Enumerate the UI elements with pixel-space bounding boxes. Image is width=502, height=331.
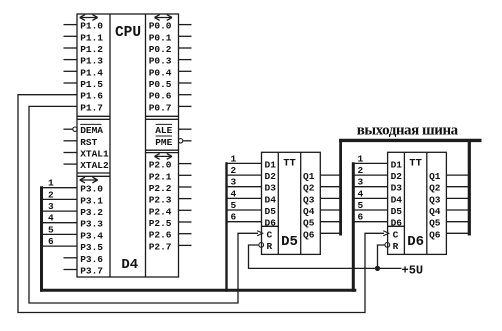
svg-text:3: 3: [231, 177, 237, 188]
svg-text:R: R: [267, 241, 273, 252]
wire P3.5 to bus, numbered 6: [40, 236, 77, 247]
svg-text:P1.4: P1.4: [80, 67, 103, 78]
svg-text:RST: RST: [80, 137, 97, 148]
svg-text:P2.3: P2.3: [149, 195, 172, 206]
svg-text:D5: D5: [281, 234, 298, 250]
pin P0.6: [149, 91, 192, 102]
D5 input D4 with numbered wire 4: [227, 188, 277, 205]
svg-text:P3.5: P3.5: [80, 242, 103, 253]
svg-text:D2: D2: [391, 171, 403, 182]
svg-text:3: 3: [48, 201, 54, 212]
pin PME (inverted): [155, 136, 191, 148]
wire P3.4 to bus, numbered 5: [40, 224, 77, 235]
svg-text:D4: D4: [121, 257, 138, 273]
svg-text:XTAL2: XTAL2: [80, 160, 109, 171]
D4 reference designator: [121, 257, 138, 273]
bottom bus (thick horizontal): [40, 289, 356, 292]
svg-text:P2.0: P2.0: [149, 160, 172, 171]
svg-text:+5U: +5U: [402, 263, 424, 277]
svg-text:4: 4: [231, 188, 237, 199]
pin P0.0: [149, 21, 192, 32]
svg-text:Q6: Q6: [303, 229, 315, 240]
svg-text:C: C: [267, 229, 273, 240]
svg-text:CPU: CPU: [115, 25, 141, 41]
D6 output Q1: [429, 171, 470, 182]
svg-text:4: 4: [358, 188, 364, 199]
D5 output Q3: [303, 194, 341, 205]
D6 reset input R (inverted): [385, 241, 399, 252]
svg-text:P1.6: P1.6: [80, 91, 103, 102]
svg-text:2: 2: [358, 165, 364, 176]
svg-text:P3.3: P3.3: [80, 219, 103, 230]
pin P2.2: [149, 183, 192, 194]
D6 input bus bar (thick vertical): [352, 162, 355, 291]
pin P1.1: [64, 32, 104, 43]
pin P3.2: [80, 207, 103, 218]
svg-text:D3: D3: [265, 183, 277, 194]
svg-text:6: 6: [231, 212, 237, 223]
svg-text:P1.7: P1.7: [80, 102, 103, 113]
svg-text:P0.4: P0.4: [149, 67, 172, 78]
svg-text:D5: D5: [265, 206, 277, 217]
svg-text:5: 5: [358, 200, 364, 211]
svg-text:Q2: Q2: [303, 183, 315, 194]
svg-text:P2.6: P2.6: [149, 230, 172, 241]
pin P1.7: [80, 102, 103, 113]
D6 input D4 with numbered wire 4: [353, 188, 402, 205]
pin P2.6: [149, 230, 192, 241]
pin P2.4: [149, 206, 192, 217]
pin P1.0: [64, 21, 104, 32]
pin P3.3: [80, 219, 103, 230]
svg-text:5: 5: [48, 224, 54, 235]
svg-text:P0.1: P0.1: [149, 32, 172, 43]
svg-text:XTAL1: XTAL1: [80, 149, 109, 160]
svg-text:P1.0: P1.0: [80, 21, 103, 32]
pin P2.0: [149, 160, 192, 171]
D5 output Q2: [303, 183, 341, 194]
svg-text:P1.1: P1.1: [80, 32, 103, 43]
D6 Q bus bar (thick vertical): [468, 140, 471, 235]
svg-text:P3.7: P3.7: [80, 266, 103, 277]
port P1 bidirectional arrow: [80, 15, 98, 21]
D6 input D1 with numbered wire 1: [353, 153, 402, 170]
port P0 bidirectional arrow: [155, 15, 173, 21]
wire P3.2 to bus, numbered 3: [40, 201, 77, 212]
D6 output Q5: [429, 218, 470, 229]
pin P0.5: [149, 79, 192, 90]
D5 TT label: [283, 158, 296, 170]
wire P3.0 to bus, numbered 1: [40, 178, 77, 189]
svg-text:P3.4: P3.4: [80, 230, 103, 241]
svg-text:ALE: ALE: [155, 125, 172, 136]
CPU microcontroller D4 body: [77, 14, 179, 277]
D6 clock input C (dynamic): [383, 229, 398, 240]
D6 output Q3: [429, 194, 470, 205]
D5 reference designator: [281, 234, 298, 250]
pin P3.7: [64, 266, 104, 277]
svg-text:Q2: Q2: [429, 183, 441, 194]
pin P2.3: [149, 195, 192, 206]
latch D5 body: [262, 152, 321, 254]
svg-text:P3.0: P3.0: [80, 184, 103, 195]
svg-text:Q5: Q5: [303, 218, 315, 229]
pin P0.7: [149, 102, 192, 113]
svg-text:P2.5: P2.5: [149, 218, 172, 229]
port P3 bidirectional arrow: [80, 177, 98, 183]
pin P0.1: [149, 32, 192, 43]
svg-text:6: 6: [48, 236, 54, 247]
D6 output Q2: [429, 183, 470, 194]
svg-text:DEMA: DEMA: [80, 125, 103, 136]
pin P2.1: [149, 171, 192, 182]
svg-text:TT: TT: [409, 158, 422, 170]
svg-text:D6: D6: [407, 234, 424, 250]
svg-text:Q4: Q4: [429, 206, 441, 217]
pin P1.6: [80, 91, 103, 102]
svg-text:Q3: Q3: [303, 194, 315, 205]
svg-text:Q6: Q6: [429, 229, 441, 240]
pin P1.3: [64, 56, 104, 67]
svg-text:4: 4: [48, 213, 54, 224]
pin P3.6: [64, 254, 104, 265]
wire P1.6 to D6 clock C: [18, 95, 384, 313]
pin XTAL2: [64, 160, 110, 171]
pin P3.0: [80, 184, 103, 195]
svg-text:D3: D3: [391, 183, 403, 194]
pin P1.4: [64, 67, 104, 78]
D6 output Q6: [429, 229, 470, 240]
svg-text:P2.2: P2.2: [149, 183, 172, 194]
svg-text:P3.1: P3.1: [80, 195, 103, 206]
svg-text:D2: D2: [265, 171, 277, 182]
D5 input D1 with numbered wire 1: [227, 153, 277, 170]
D6 input D5 with numbered wire 5: [353, 200, 402, 217]
svg-text:R: R: [393, 241, 399, 252]
D6 input D2 with numbered wire 2: [353, 165, 402, 182]
svg-text:1: 1: [358, 153, 364, 164]
svg-text:P3.2: P3.2: [80, 207, 103, 218]
svg-text:Q1: Q1: [429, 171, 441, 182]
output bus (thick horizontal): [339, 139, 482, 142]
svg-text:P2.1: P2.1: [149, 171, 172, 182]
svg-text:P1.2: P1.2: [80, 44, 103, 55]
svg-text:P0.2: P0.2: [149, 44, 172, 55]
pin XTAL1: [64, 149, 110, 160]
pin P0.3: [149, 56, 192, 67]
D5 input D6 with numbered wire 6: [227, 212, 277, 229]
svg-text:3: 3: [358, 177, 364, 188]
D6 output Q4: [429, 206, 470, 217]
svg-text:Q4: Q4: [303, 206, 315, 217]
svg-text:P1.3: P1.3: [80, 56, 103, 67]
svg-text:2: 2: [48, 189, 54, 200]
D5 output Q5: [303, 218, 341, 229]
bus bar from P3 port (thick vertical): [40, 186, 43, 292]
svg-text:Q1: Q1: [303, 171, 315, 182]
svg-text:PME: PME: [155, 137, 172, 148]
svg-text:P0.0: P0.0: [149, 21, 172, 32]
pin P2.7: [149, 241, 192, 252]
svg-text:TT: TT: [283, 158, 296, 170]
pin P3.1: [80, 195, 103, 206]
svg-text:5: 5: [231, 200, 237, 211]
wire D6 R to +5V: [378, 245, 385, 268]
D5 input D5 with numbered wire 5: [227, 200, 277, 217]
svg-text:выходная шина: выходная шина: [357, 122, 459, 138]
wire P3.3 to bus, numbered 4: [40, 213, 77, 224]
pin RST: [64, 137, 98, 148]
D6 input D3 with numbered wire 3: [353, 177, 402, 194]
D5 Q bus bar (thick vertical): [339, 140, 342, 235]
svg-text:P0.7: P0.7: [149, 102, 172, 113]
svg-text:D4: D4: [391, 194, 403, 205]
wire P3.1 to bus, numbered 2: [40, 189, 77, 200]
D5 input D3 with numbered wire 3: [227, 177, 277, 194]
svg-text:6: 6: [358, 212, 364, 223]
pin P3.5: [80, 242, 103, 253]
wire D5 R to +5V: [249, 245, 402, 268]
svg-text:D4: D4: [265, 194, 277, 205]
CPU label: [115, 25, 141, 41]
svg-text:D1: D1: [265, 159, 277, 170]
wire P1.7 to D5 clock C: [29, 106, 258, 303]
svg-text:P0.3: P0.3: [149, 56, 172, 67]
pin P0.4: [149, 67, 192, 78]
svg-text:P2.4: P2.4: [149, 206, 172, 217]
svg-text:P2.7: P2.7: [149, 241, 172, 252]
svg-text:P0.6: P0.6: [149, 91, 172, 102]
pin P0.2: [149, 44, 192, 55]
D5 reset input R (inverted): [259, 241, 273, 252]
pin P1.2: [64, 44, 104, 55]
pin P2.5: [149, 218, 192, 229]
output bus label (vyhodnaya shina): [357, 122, 459, 138]
svg-text:Q3: Q3: [429, 194, 441, 205]
D6 input D6 with numbered wire 6: [353, 212, 402, 229]
svg-text:D1: D1: [391, 159, 403, 170]
D5 clock input C (dynamic): [257, 229, 272, 240]
junction dot on +5V line: [375, 266, 380, 271]
+5V supply label: [402, 263, 424, 277]
svg-text:2: 2: [231, 165, 237, 176]
pin ALE: [155, 124, 191, 136]
D6 TT label: [409, 158, 422, 170]
svg-text:C: C: [393, 229, 399, 240]
D5 output Q6: [303, 229, 341, 240]
pin DEMA (inverted): [64, 124, 104, 136]
svg-text:P0.5: P0.5: [149, 79, 172, 90]
D5 output Q1: [303, 171, 341, 182]
svg-text:D6: D6: [265, 218, 277, 229]
svg-text:P3.6: P3.6: [80, 254, 103, 265]
D5 input D2 with numbered wire 2: [227, 165, 277, 182]
pin P3.4: [80, 230, 103, 241]
D5 output Q4: [303, 206, 341, 217]
D5 input bus bar (thick vertical): [225, 162, 227, 291]
D6 reference designator: [407, 234, 424, 250]
pin P1.5: [64, 79, 104, 90]
latch D6 body: [388, 152, 447, 254]
svg-text:D5: D5: [391, 206, 403, 217]
port P2 bidirectional arrow: [155, 154, 173, 160]
svg-text:Q5: Q5: [429, 218, 441, 229]
svg-text:1: 1: [231, 153, 237, 164]
svg-text:P1.5: P1.5: [80, 79, 103, 90]
svg-text:D6: D6: [391, 218, 403, 229]
svg-text:1: 1: [48, 178, 54, 189]
